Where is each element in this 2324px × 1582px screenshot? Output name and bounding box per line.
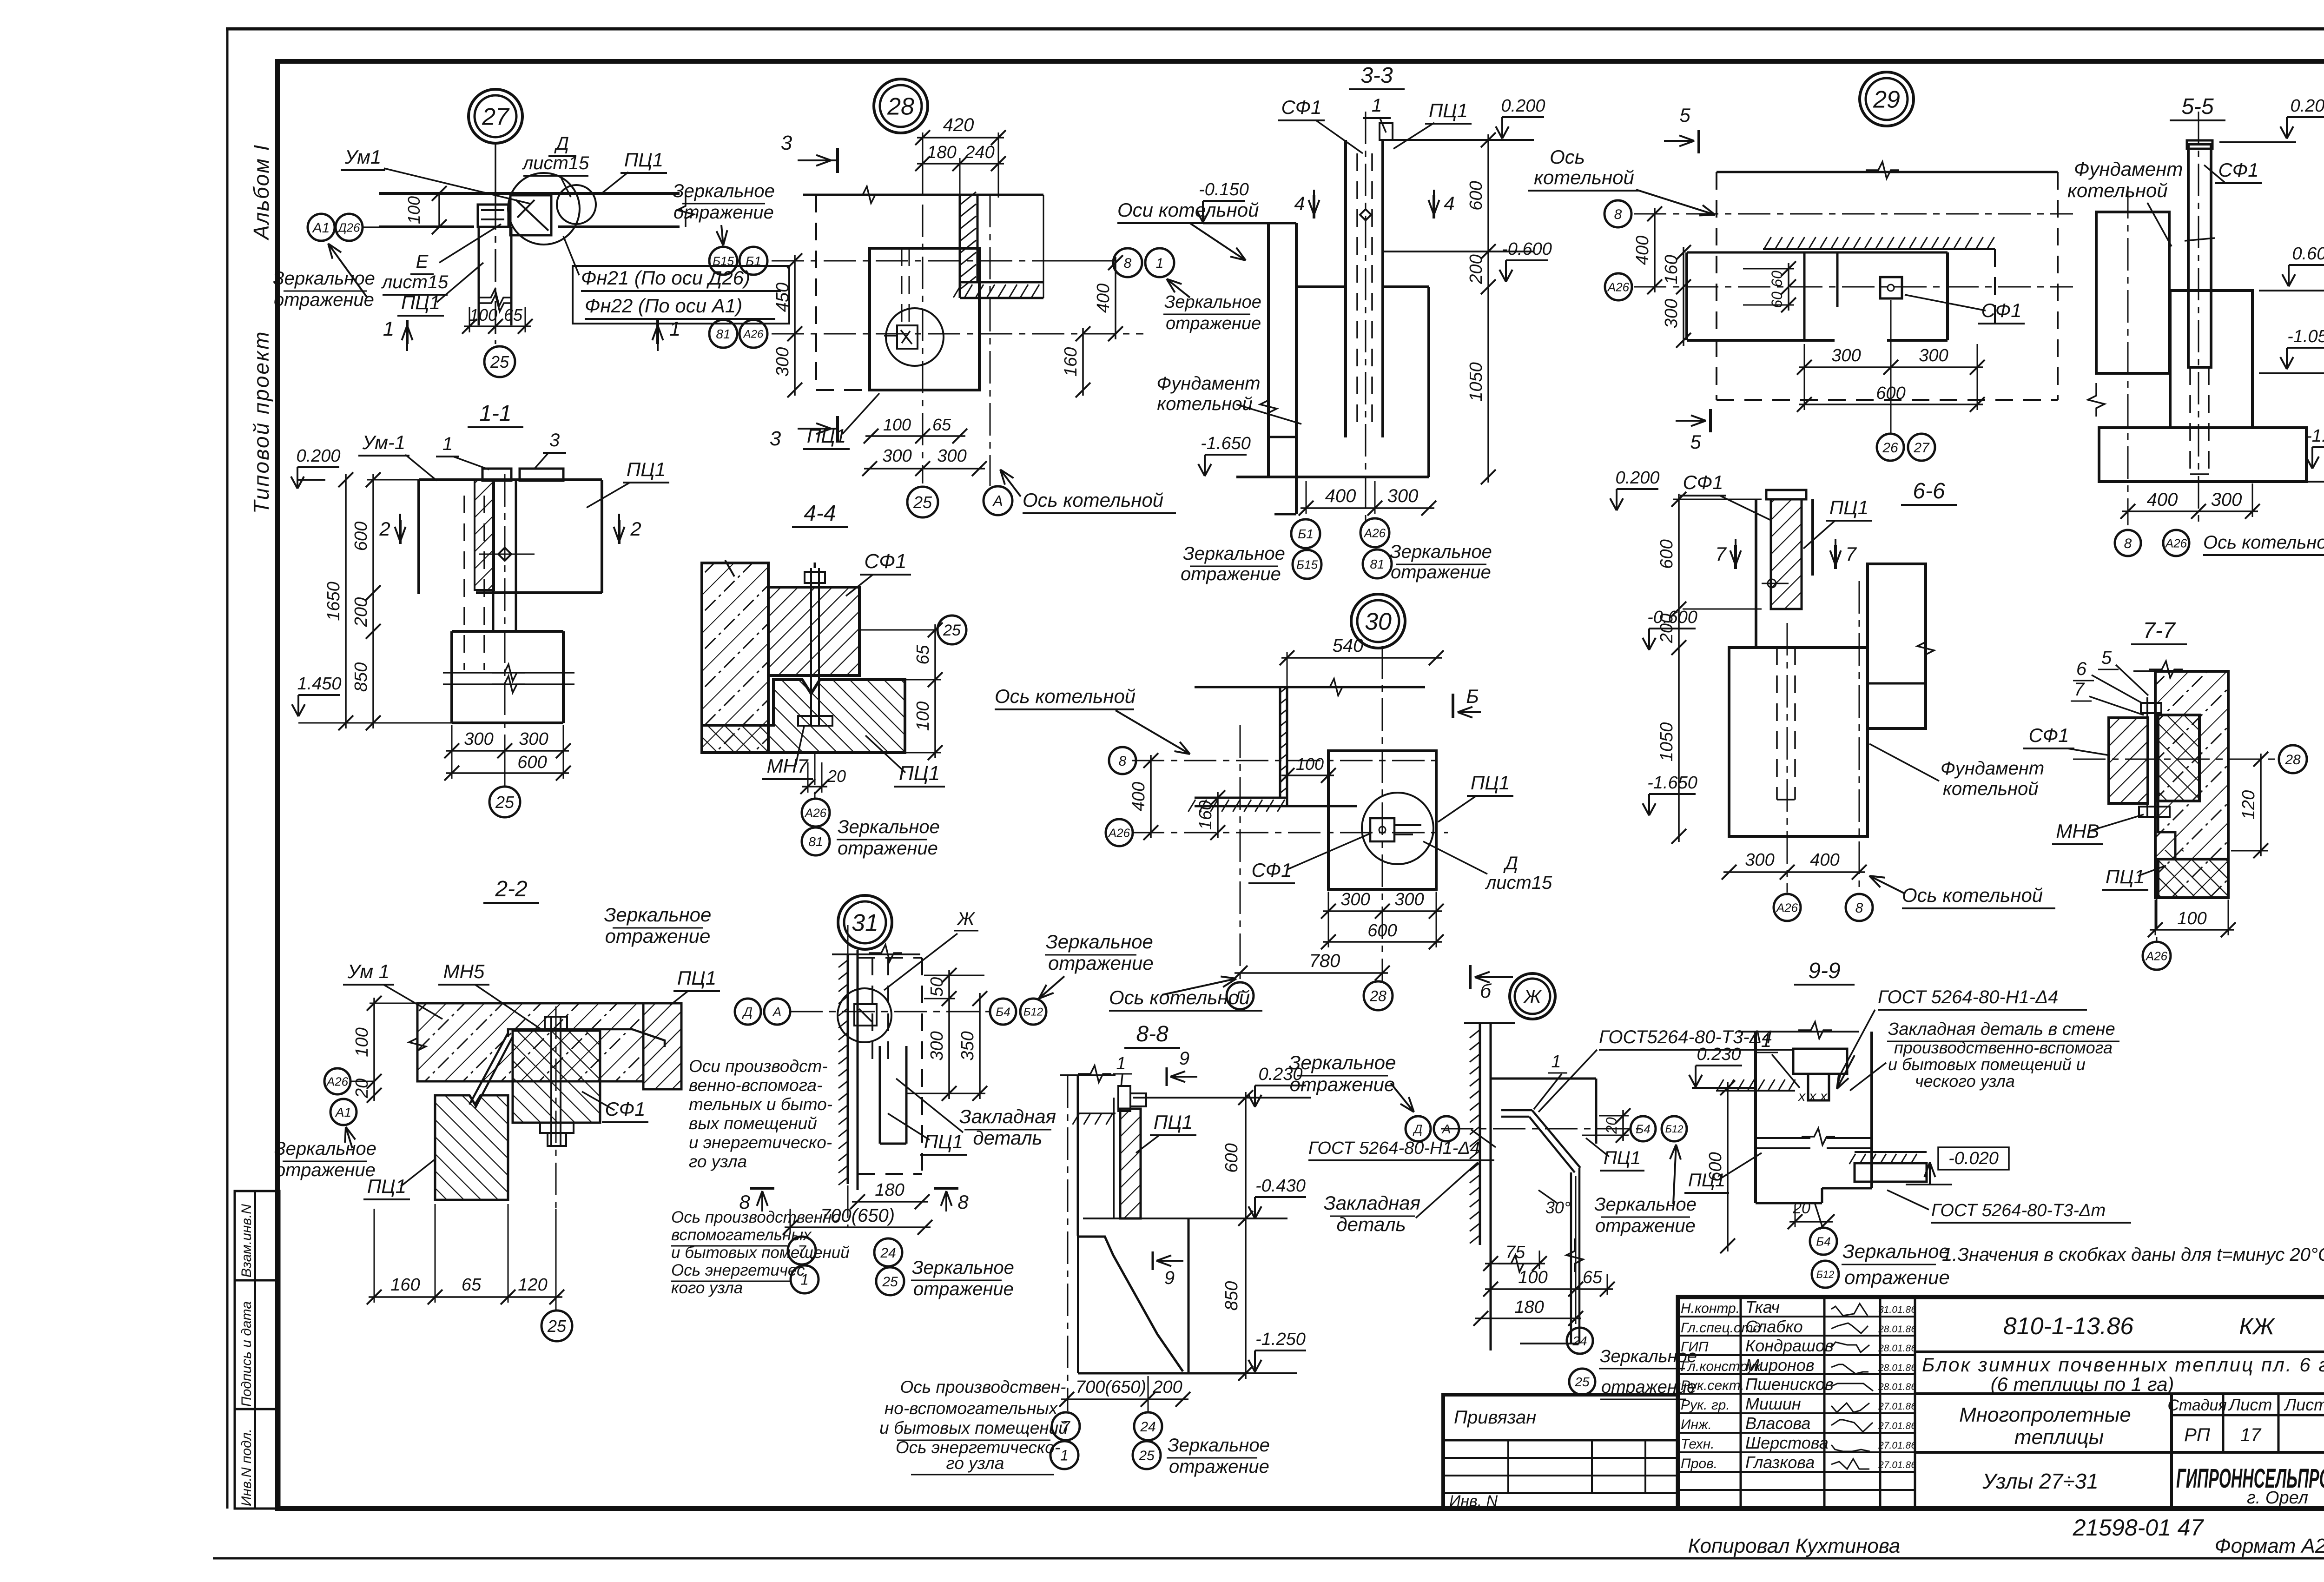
section 2-2 bolt xyxy=(550,1017,552,1146)
svg-text:ГОСТ 5264-80-Т3-Δт: ГОСТ 5264-80-Т3-Δт xyxy=(1931,1201,2106,1220)
svg-text:ПЦ1: ПЦ1 xyxy=(899,762,940,785)
axis bubble 25 under 28 xyxy=(907,487,938,517)
section 3-3 left wall xyxy=(1267,223,1270,477)
svg-text:А26: А26 xyxy=(804,806,827,820)
svg-text:Ось котельной: Ось котельной xyxy=(1902,884,2043,906)
section 9-9 lower plate with hatch xyxy=(1855,1151,1927,1153)
svg-text:КЖ: КЖ xyxy=(2239,1313,2275,1339)
svg-text:8: 8 xyxy=(1614,207,1622,222)
svg-text:9-9: 9-9 xyxy=(1808,959,1840,983)
detail 27 dim 100 left xyxy=(438,193,440,227)
axis bubble 28 under 30 xyxy=(1364,981,1393,1010)
section 4-4 bolt xyxy=(810,568,812,726)
svg-text:29: 29 xyxy=(1873,86,1900,113)
svg-text:8-8: 8-8 xyxy=(1136,1022,1169,1046)
detail 28 top dims 420 180 240 xyxy=(917,137,1004,139)
section 2-2 top slab hatched (Ум1) xyxy=(417,1003,643,1081)
svg-text:Зеркальное: Зеркальное xyxy=(673,181,775,201)
svg-text:60: 60 xyxy=(1769,271,1785,287)
detail 30 dim 780 xyxy=(1235,972,1388,974)
svg-text:Фн22 (По оси А1): Фн22 (По оси А1) xyxy=(585,295,742,317)
svg-text:28: 28 xyxy=(2284,752,2301,768)
svg-text:Б12: Б12 xyxy=(1665,1123,1684,1135)
section 9-9 dim 600 xyxy=(1727,1082,1729,1251)
detail 30 inner detail circle xyxy=(1362,793,1433,864)
axis bubble А26 left of 30 xyxy=(1106,819,1133,846)
section 8-8 bottom line xyxy=(1078,1372,1246,1375)
svg-text:25: 25 xyxy=(882,1274,898,1290)
svg-text:100: 100 xyxy=(883,415,911,434)
section 3-3 break on dim line xyxy=(1260,388,1277,421)
svg-text:Ткач: Ткач xyxy=(1745,1297,1780,1317)
svg-text:25: 25 xyxy=(495,793,515,812)
svg-text:Д26: Д26 xyxy=(337,220,360,234)
svg-text:8: 8 xyxy=(1855,900,1863,916)
svg-text:лист15: лист15 xyxy=(522,153,589,173)
svg-text:9: 9 xyxy=(1164,1268,1175,1288)
svg-text:Зеркальное: Зеркальное xyxy=(1046,931,1153,953)
axis bubble 81 under 4-4 with mirror note xyxy=(802,827,830,855)
svg-text:21598-01 47: 21598-01 47 xyxy=(2073,1515,2205,1541)
section 6-6 bolt dashed xyxy=(1776,648,1778,800)
svg-text:СФ1: СФ1 xyxy=(1683,471,1723,493)
svg-text:100: 100 xyxy=(404,196,423,224)
section 2-2 bottom dims 160 65 120 xyxy=(369,1296,562,1298)
svg-text:1: 1 xyxy=(1116,1054,1126,1073)
svg-text:Узлы 27÷31: Узлы 27÷31 xyxy=(1982,1469,2098,1493)
svg-text:А26: А26 xyxy=(1363,526,1386,540)
svg-text:300: 300 xyxy=(1919,346,1948,365)
axis bubbles Д А left of Ж xyxy=(1406,1116,1431,1141)
svg-text:Закладная: Закладная xyxy=(1324,1192,1420,1214)
svg-text:28: 28 xyxy=(887,93,914,120)
svg-text:ПЦ1: ПЦ1 xyxy=(367,1175,406,1197)
svg-text:ческого узла: ческого узла xyxy=(1915,1072,2015,1091)
svg-text:31.01.86: 31.01.86 xyxy=(1878,1304,1916,1315)
axis bubbles 8 and 1 right xyxy=(1113,248,1142,277)
svg-text:300: 300 xyxy=(1387,486,1419,506)
axis bubble А26 under 7-7 xyxy=(2143,942,2171,970)
section 3-3 bottom dims 400 300 xyxy=(1301,507,1434,509)
section 3-3 dim chain right 600 200 1050 xyxy=(1487,134,1489,483)
svg-text:7: 7 xyxy=(1845,543,1857,565)
svg-text:2: 2 xyxy=(630,518,641,540)
section 1-1 anchor bolt dashed xyxy=(463,496,465,670)
svg-text:ГОСТ 5264-80-Н1-Δ4: ГОСТ 5264-80-Н1-Δ4 xyxy=(1878,987,2058,1007)
svg-text:1: 1 xyxy=(1156,256,1164,271)
section 4-4 dims 65 100 right xyxy=(934,624,936,758)
section 3-3 column dashed bolt lines xyxy=(1356,153,1358,428)
svg-text:Миронов: Миронов xyxy=(1745,1356,1815,1375)
svg-text:лист15: лист15 xyxy=(381,272,449,292)
svg-text:ГОСТ 5264-80-Н1-Δ4: ГОСТ 5264-80-Н1-Δ4 xyxy=(1308,1139,1480,1158)
svg-text:Взам.инв.N: Взам.инв.N xyxy=(239,1204,254,1278)
left margin box Инв.N подл. xyxy=(235,1409,279,1509)
svg-text:400: 400 xyxy=(1325,486,1356,506)
svg-text:го узла: го узла xyxy=(946,1454,1004,1473)
svg-text:28.01.86: 28.01.86 xyxy=(1878,1363,1916,1373)
svg-text:160: 160 xyxy=(1196,801,1215,830)
svg-text:СФ1: СФ1 xyxy=(864,550,906,573)
section 1-1 top plates items 1 and 3 xyxy=(482,469,511,481)
svg-text:Ось: Ось xyxy=(1550,146,1585,168)
svg-text:А: А xyxy=(772,1005,782,1019)
section 1-1 foundation break lines xyxy=(443,672,574,674)
section 1-1 column lines xyxy=(492,480,495,630)
detail 30 dim 160 xyxy=(1217,792,1219,838)
svg-text:1050: 1050 xyxy=(1466,362,1486,402)
svg-text:4: 4 xyxy=(1444,192,1454,214)
svg-text:отражение: отражение xyxy=(275,1160,376,1180)
axis bubbles А26 А1 left of 2-2 xyxy=(324,1068,350,1094)
detail 29 dims 60 60 xyxy=(1788,263,1789,311)
svg-text:Зеркальное: Зеркальное xyxy=(1183,543,1285,564)
detail 28 dims 300 300 xyxy=(864,468,985,470)
axis bubbles 24 25 under 8-8 xyxy=(1134,1412,1162,1440)
svg-text:25: 25 xyxy=(1574,1375,1590,1389)
title block outer box xyxy=(1678,1297,2324,1509)
detail 30 foundation rect xyxy=(1328,751,1436,889)
svg-text:Оси производст-: Оси производст- xyxy=(689,1057,828,1076)
svg-text:-0.150: -0.150 xyxy=(1199,180,1249,199)
section 8-8 hatched column xyxy=(1120,1109,1141,1218)
section marks Б right of 30 xyxy=(1452,694,1454,718)
detail 29 dims 300 300 bottom xyxy=(1799,366,1983,368)
svg-text:81: 81 xyxy=(808,834,823,849)
svg-text:Техн.: Техн. xyxy=(1681,1436,1715,1452)
svg-text:300: 300 xyxy=(937,446,966,466)
svg-text:Д: Д xyxy=(1503,853,1518,874)
svg-text:25: 25 xyxy=(943,622,961,639)
svg-text:котельной: котельной xyxy=(1534,166,1634,188)
svg-text:-0.600: -0.600 xyxy=(1647,608,1697,627)
detail 30 dim 100 xyxy=(1281,774,1334,776)
svg-text:1: 1 xyxy=(1761,1031,1771,1051)
svg-text:Е: Е xyxy=(416,252,429,272)
svg-text:5: 5 xyxy=(2101,648,2112,668)
svg-text:ГОСТ5264-80-Т3-Δ4: ГОСТ5264-80-Т3-Δ4 xyxy=(1599,1027,1772,1047)
section 9-9 wall rect xyxy=(1754,1032,1757,1203)
axis bubbles Б4 Б12 right of Ж xyxy=(1631,1116,1656,1141)
svg-text:300: 300 xyxy=(519,729,548,749)
svg-text:Ось котельной: Ось котельной xyxy=(1109,986,1250,1008)
svg-text:200: 200 xyxy=(1466,254,1486,284)
svg-text:Типовой проект: Типовой проект xyxy=(249,330,273,514)
svg-text:31: 31 xyxy=(852,910,878,937)
section 8-8 slope profile xyxy=(1078,1237,1183,1371)
detail 28 anchor bolt dashed xyxy=(901,248,903,325)
axis bubbles А26 8 under 6-6 xyxy=(1774,894,1801,921)
svg-text:отражение: отражение xyxy=(1166,314,1261,333)
svg-text:Фн21 (По оси Д26): Фн21 (По оси Д26) xyxy=(581,267,750,289)
svg-text:Б: Б xyxy=(1466,685,1479,707)
axis bubble 28 right of 7-7 xyxy=(2279,745,2307,773)
axis bubbles Б4 Б12 right of 31 xyxy=(990,999,1016,1025)
svg-text:Б12: Б12 xyxy=(1023,1006,1043,1019)
svg-text:8: 8 xyxy=(2124,536,2132,551)
svg-text:180: 180 xyxy=(927,143,956,162)
section 2-2 lower left block ПЦ1 hatched xyxy=(435,1095,508,1200)
section 3-3 foundation xyxy=(1296,285,1346,288)
svg-text:810-1-13.86: 810-1-13.86 xyxy=(2003,1313,2134,1340)
svg-text:Блок зимних почвенных тепли: Блок зимних почвенных теплиц пл. 6 га xyxy=(1922,1354,2324,1376)
svg-text:81: 81 xyxy=(1370,557,1384,571)
detail Ж section mark б top xyxy=(1469,965,1472,989)
svg-text:Кондрашов: Кондрашов xyxy=(1745,1336,1834,1355)
svg-text:Б1: Б1 xyxy=(1298,527,1314,541)
axis bubble 25 right of 4-4 xyxy=(938,616,966,644)
svg-text:4-4: 4-4 xyxy=(804,501,836,526)
axis bubbles Б1 Б15 under 3-3 xyxy=(1291,519,1320,548)
svg-text:-1.650: -1.650 xyxy=(1647,773,1697,793)
svg-text:Ж: Ж xyxy=(1523,986,1542,1007)
svg-text:25: 25 xyxy=(547,1317,567,1336)
detail Ж bubble xyxy=(1510,973,1555,1019)
svg-text:и бытовых помещений: и бытовых помещений xyxy=(879,1418,1068,1437)
svg-text:600: 600 xyxy=(517,753,547,772)
svg-text:50: 50 xyxy=(927,977,947,997)
svg-text:Д: Д xyxy=(742,1005,753,1019)
svg-text:Формат А2: Формат А2 xyxy=(2215,1535,2324,1557)
detail 31 dashed outline xyxy=(858,957,922,959)
svg-text:ПЦ1: ПЦ1 xyxy=(1604,1148,1641,1168)
svg-text:400: 400 xyxy=(2147,490,2178,510)
axis bubbles 26 27 under 29 xyxy=(1877,434,1904,461)
svg-text:17: 17 xyxy=(2240,1425,2262,1445)
svg-text:2-2: 2-2 xyxy=(495,877,527,901)
svg-text:28: 28 xyxy=(1369,988,1386,1005)
svg-text:отражение: отражение xyxy=(1391,562,1491,582)
svg-text:Инв.N подл.: Инв.N подл. xyxy=(239,1429,254,1506)
svg-text:780: 780 xyxy=(1309,951,1340,971)
svg-text:-1.650: -1.650 xyxy=(1201,434,1251,453)
section 4-4 СФ1 block hatched xyxy=(768,587,859,675)
svg-text:Оси котельной: Оси котельной xyxy=(1117,199,1259,221)
section 2-2 bent bar down-left xyxy=(469,1033,508,1105)
section 7-7 axis horizontal xyxy=(2073,759,2279,760)
svg-text:100: 100 xyxy=(469,305,497,324)
svg-text:Инж.: Инж. xyxy=(1681,1417,1712,1432)
section 5-5 left foundation block xyxy=(2096,212,2169,373)
svg-text:ПЦ1: ПЦ1 xyxy=(1429,99,1468,121)
svg-text:300: 300 xyxy=(1662,299,1681,328)
svg-text:Стадия: Стадия xyxy=(2167,1397,2226,1414)
detail 30 bubble xyxy=(1351,594,1405,648)
detail 29 dashed outer foundation xyxy=(1716,172,1717,400)
detail 31 inner detail circle xyxy=(838,988,891,1042)
axis bubble 25 under section 1-1 xyxy=(489,787,520,817)
svg-text:200: 200 xyxy=(1152,1377,1182,1397)
svg-text:7-7: 7-7 xyxy=(2143,618,2176,643)
detail 28 inner anchor detail circle xyxy=(886,308,944,366)
svg-text:1.Значения в скобках даны д: 1.Значения в скобках даны для t=минус 20… xyxy=(1942,1244,2324,1265)
svg-text:350: 350 xyxy=(958,1031,977,1060)
svg-text:венно-вспомога-: венно-вспомога- xyxy=(689,1076,822,1095)
detail 27 vertical axis line xyxy=(495,197,496,344)
section 2-2 central anchor block hatched xyxy=(513,1031,600,1123)
svg-text:65: 65 xyxy=(913,645,933,665)
svg-text:-0.600: -0.600 xyxy=(1502,239,1552,259)
svg-text:300: 300 xyxy=(927,1031,947,1060)
detail 29 foundation outline xyxy=(1685,252,1688,340)
svg-text:81: 81 xyxy=(716,327,730,341)
svg-text:24: 24 xyxy=(1572,1334,1587,1348)
section 2-2 right slab ПЦ1 hatched xyxy=(643,1003,681,1089)
detail 29 ground hatch strip xyxy=(1687,252,1948,254)
svg-text:20: 20 xyxy=(827,767,846,786)
svg-text:160: 160 xyxy=(1662,255,1681,284)
section 6-6 axes xyxy=(1787,623,1788,893)
section 8-8 bottom of column level line xyxy=(1083,1218,1287,1219)
svg-text:Фундамент: Фундамент xyxy=(1941,758,2044,779)
svg-text:65: 65 xyxy=(1583,1268,1603,1287)
svg-text:СФ1: СФ1 xyxy=(1251,859,1292,881)
axis bubble А26 under 4-4 xyxy=(802,799,830,827)
svg-text:27.01.86: 27.01.86 xyxy=(1878,1401,1916,1412)
svg-text:А26: А26 xyxy=(743,328,764,341)
svg-text:25: 25 xyxy=(913,493,932,512)
svg-text:Б1: Б1 xyxy=(746,254,761,268)
section 4-4 ПЦ1 block hatched xyxy=(702,680,905,753)
svg-text:27.01.86: 27.01.86 xyxy=(1878,1440,1916,1451)
svg-text:600: 600 xyxy=(1367,921,1397,940)
svg-text:450: 450 xyxy=(773,283,792,312)
svg-text:0.200: 0.200 xyxy=(2290,96,2324,116)
detail Ж top rect outline xyxy=(1491,1078,1596,1080)
section 5-5 bottom dims 400 300 xyxy=(2122,510,2258,512)
svg-text:65: 65 xyxy=(462,1275,482,1295)
svg-text:А1: А1 xyxy=(312,220,330,236)
section 1-1 section marks 2 xyxy=(399,520,402,544)
svg-text:Д: Д xyxy=(1413,1122,1422,1136)
axis bubbles 24 25 under Ж with mirror note xyxy=(1567,1328,1593,1354)
svg-text:ПЦ1: ПЦ1 xyxy=(1688,1170,1725,1191)
svg-text:1: 1 xyxy=(1551,1052,1561,1072)
section 8-8 axis vertical xyxy=(1067,1075,1069,1411)
svg-text:Зеркальное: Зеркальное xyxy=(1842,1240,1950,1262)
svg-text:А26: А26 xyxy=(1607,280,1630,294)
section 9-9 wall break symbols xyxy=(1756,1137,1810,1139)
svg-text:7: 7 xyxy=(1715,543,1727,565)
svg-text:9: 9 xyxy=(1179,1048,1189,1069)
svg-text:7: 7 xyxy=(2074,679,2085,700)
detail Ж dim 20 xyxy=(1622,1110,1624,1141)
detail 29 dims 160 300 left xyxy=(1683,247,1684,346)
svg-text:А26: А26 xyxy=(1776,900,1798,914)
svg-text:Ось котельной: Ось котельной xyxy=(995,685,1136,707)
section 3-3 section marks 4 xyxy=(1313,195,1315,218)
svg-text:Зеркальное: Зеркальное xyxy=(1164,292,1261,312)
section 7-7 big wall hatched xyxy=(2155,671,2228,898)
svg-text:5: 5 xyxy=(1690,431,1701,453)
detail 30 axes xyxy=(1132,760,1436,761)
svg-text:25: 25 xyxy=(490,352,509,371)
detail 28 dims 400 160 right xyxy=(1115,257,1116,339)
section 8-8 section mark 9 top xyxy=(1166,1067,1168,1086)
axis bubble 8 xyxy=(1604,200,1631,227)
detail 30 wall top line xyxy=(1195,686,1425,688)
section 1-1 dim chain left 600 200 850 xyxy=(372,474,374,728)
svg-text:Пшенисков: Пшенисков xyxy=(1745,1375,1834,1394)
svg-text:160: 160 xyxy=(390,1275,420,1295)
svg-text:400: 400 xyxy=(1129,782,1149,811)
svg-text:1: 1 xyxy=(1372,95,1382,116)
svg-text:Инв. N: Инв. N xyxy=(1449,1492,1498,1510)
svg-text:А: А xyxy=(1441,1122,1451,1136)
svg-text:1: 1 xyxy=(669,318,680,340)
section 5-5 small break on column xyxy=(2185,238,2215,241)
svg-text:1050: 1050 xyxy=(1657,722,1677,762)
svg-text:700(650): 700(650) xyxy=(1076,1377,1146,1397)
section 7-7 dim 120 xyxy=(2260,754,2262,856)
svg-text:2: 2 xyxy=(379,518,390,540)
section 3-3 axis with diamond xyxy=(1365,112,1367,521)
axis bubble 25 under 2-2 xyxy=(541,1311,572,1341)
svg-text:МН5: МН5 xyxy=(443,960,485,982)
svg-text:Ось производственно: Ось производственно xyxy=(671,1208,841,1226)
svg-text:25: 25 xyxy=(1138,1448,1155,1463)
svg-text:850: 850 xyxy=(1222,1281,1241,1311)
title block left attach table Привязан xyxy=(1443,1395,1678,1509)
section 6-6 small axis circle on panel xyxy=(1768,579,1776,588)
detail 27 dims 100 65 below xyxy=(479,295,512,311)
svg-text:Рук. гр.: Рук. гр. xyxy=(1681,1397,1730,1413)
section 1-1 axis with diamond xyxy=(504,474,506,735)
svg-text:отражение: отражение xyxy=(1181,564,1281,584)
sheet left margin edge line xyxy=(226,29,229,1509)
svg-text:ПЦ1: ПЦ1 xyxy=(807,425,846,447)
svg-text:300: 300 xyxy=(773,347,792,377)
section 1-1 foundation xyxy=(452,630,563,633)
svg-text:6-6: 6-6 xyxy=(1913,479,1945,503)
detail Ж axis horizontal xyxy=(1441,1128,1641,1130)
svg-text:Копировал Кухтинова: Копировал Кухтинова xyxy=(1688,1535,1901,1557)
title block main area: project number cell xyxy=(1915,1350,2324,1353)
section 8-8 section mark 9 lower xyxy=(1152,1251,1154,1270)
svg-text:отражение: отражение xyxy=(838,838,938,859)
section 6-6 section marks 7 xyxy=(1734,545,1737,569)
svg-text:100: 100 xyxy=(1518,1268,1547,1287)
axis bubble Г under 30 xyxy=(1227,982,1254,1009)
svg-text:отражение: отражение xyxy=(913,1279,1014,1299)
svg-text:65: 65 xyxy=(504,305,523,324)
section 1-1 top slab outline xyxy=(419,478,602,481)
svg-text:котельной: котельной xyxy=(1157,394,1252,414)
detail 31 dim 180 xyxy=(852,1201,928,1203)
svg-text:Привязан: Привязан xyxy=(1454,1407,1536,1428)
svg-text:Фундамент: Фундамент xyxy=(1156,373,1260,394)
detail 30 dims 300 300 600 bottom xyxy=(1323,910,1442,912)
svg-text:отражение: отражение xyxy=(274,290,374,310)
section 4-4 dim 20 under bolt xyxy=(802,786,827,788)
svg-text:24: 24 xyxy=(880,1245,896,1261)
detail 29 dim 400 left xyxy=(1654,208,1656,292)
svg-text:ПЦ1: ПЦ1 xyxy=(2106,866,2145,887)
svg-text:А1: А1 xyxy=(335,1105,351,1119)
detail 28 dims 100 65 xyxy=(865,435,965,437)
svg-text:СФ1: СФ1 xyxy=(1981,299,2021,321)
section 7-7 middle block hatched xyxy=(2158,715,2199,801)
svg-text:0.200: 0.200 xyxy=(1501,96,1545,116)
left margin box Взам.инв.N xyxy=(235,1191,279,1280)
detail 31 wall lines with hatch xyxy=(847,954,849,1184)
sheet bottom paper line xyxy=(213,1557,2324,1560)
svg-text:420: 420 xyxy=(943,115,974,135)
section 1-1 overall dim 1650 xyxy=(345,474,347,728)
svg-text:Б4: Б4 xyxy=(1816,1234,1830,1248)
svg-text:и энергетическо-: и энергетическо- xyxy=(689,1133,832,1152)
detail 30 dim 540 xyxy=(1281,657,1442,659)
